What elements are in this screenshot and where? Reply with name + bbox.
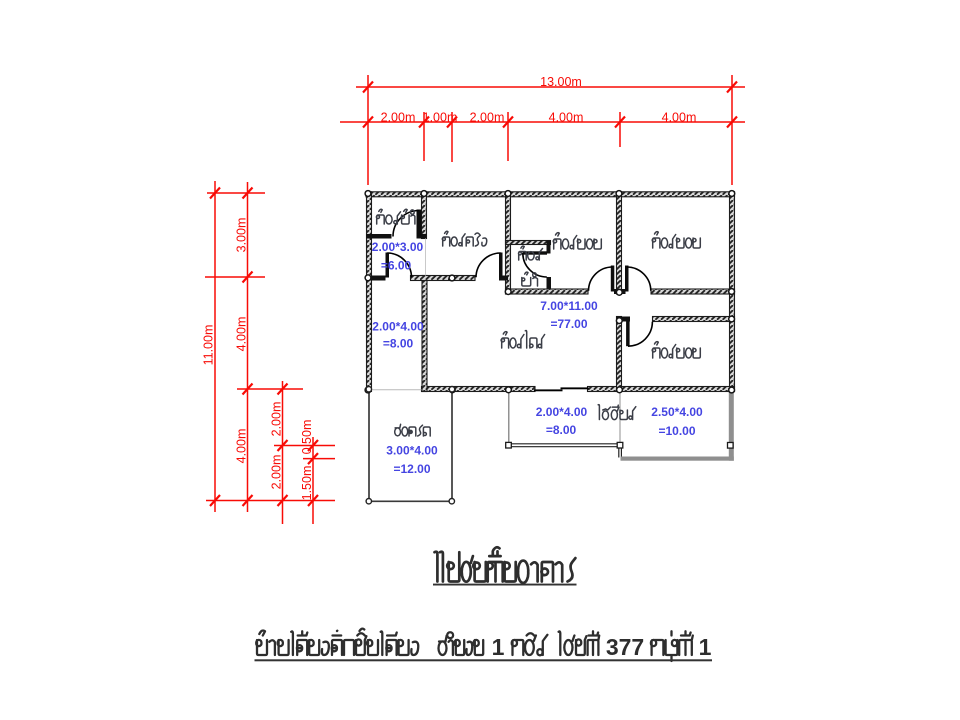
wall exterior right <box>730 192 735 392</box>
label small bathroom line2 (nam) <box>522 272 538 286</box>
svg-text:1: 1 <box>699 634 712 660</box>
right porch gray band bottom <box>621 457 734 461</box>
wall bedrooms south y=291 west segment <box>506 289 589 294</box>
wall y=277 segment middle (kitchen south) <box>411 276 476 281</box>
svg-text:=6.00: =6.00 <box>381 259 412 273</box>
label kitchen (hong krua) <box>442 231 486 246</box>
dimension line 11.00m (left overall height) <box>202 181 221 512</box>
porch slab edge double line y=445 <box>509 444 621 447</box>
parking corner circles <box>366 387 455 504</box>
column markers <box>365 191 735 393</box>
svg-text:2.00m: 2.00m <box>381 110 416 124</box>
svg-text:4.00m: 4.00m <box>662 110 697 124</box>
svg-text:=8.00: =8.00 <box>383 337 414 351</box>
porch divider thin line x=620 <box>619 392 621 444</box>
label bathroom top-left (hong nam) <box>376 209 415 224</box>
door D1 bathroom top-left <box>393 210 422 237</box>
wall interior x=424 upper (bath right) <box>422 192 427 239</box>
svg-text:=77.00: =77.00 <box>550 317 587 331</box>
svg-text:4.00m: 4.00m <box>235 317 249 352</box>
svg-text:1.50m: 1.50m <box>300 466 314 501</box>
dimension line row 2: 2.00m 1.00m 2.00m 4.00m 4.00m <box>340 110 745 162</box>
dimension line 13.00m (top overall width) <box>356 75 745 185</box>
wall y=277 jamb at kitchen door <box>499 276 508 281</box>
dimension line left: 2.00m 2.00m <box>270 381 288 524</box>
door D5 middle bedroom <box>589 266 615 292</box>
label hall (hong thong) <box>501 330 544 348</box>
area text porch right 2.50*4.00 <box>651 405 703 438</box>
dimension line left: 3.00m 4.00m 4.00m <box>235 182 253 512</box>
wall bathroom bottom y=236 jamb right <box>417 234 427 239</box>
svg-text:1.00m: 1.00m <box>423 110 458 124</box>
title underline <box>433 584 577 586</box>
svg-text:3.00m: 3.00m <box>235 218 249 253</box>
svg-text:2.00*4.00: 2.00*4.00 <box>536 405 588 419</box>
svg-text:=10.00: =10.00 <box>658 424 695 438</box>
bottom underline <box>255 659 713 661</box>
label bedroom right (hong non) <box>652 232 700 248</box>
wall y=277 segment west <box>366 276 386 281</box>
door D4 small bathroom <box>523 251 548 277</box>
area text bathroom 2.00*3.00 <box>372 240 424 273</box>
wall bedrooms south y=291 east segment <box>651 289 735 294</box>
svg-text:377: 377 <box>606 634 644 660</box>
bathroom partition thin line x=425 <box>425 239 427 276</box>
label bedroom bottom-right (hong non) <box>652 342 700 358</box>
wall interior divider between top bedrooms x=619 <box>617 192 622 294</box>
svg-text:13.00m: 13.00m <box>540 75 582 89</box>
wall bathroom bottom y=236 left segment <box>366 234 392 239</box>
wall exterior bottom (right of entrance) <box>588 387 735 392</box>
svg-text:4.00m: 4.00m <box>235 429 249 464</box>
dimension line left: 0.50m 1.50m <box>300 420 318 524</box>
svg-text:2.50*4.00: 2.50*4.00 <box>651 405 703 419</box>
parking slab outline <box>368 389 452 501</box>
wall exterior bottom (left of entrance) <box>422 387 536 392</box>
svg-text:4.00m: 4.00m <box>549 110 584 124</box>
svg-text:=8.00: =8.00 <box>546 423 577 437</box>
svg-text:1: 1 <box>492 634 505 660</box>
svg-text:=12.00: =12.00 <box>393 462 430 476</box>
wall interior x=424 lower (hall left) <box>422 276 427 392</box>
area text porch middle 2.00*4.00 <box>536 405 588 437</box>
wall exterior top <box>366 192 735 197</box>
label small bathroom line1 (hong) <box>519 246 543 260</box>
door D6 right top bedroom <box>625 266 651 292</box>
area text parking 3.00*4.00 <box>386 444 438 477</box>
porch divider thin line x=508.8 <box>508 392 510 444</box>
door D2 left room at y=277 <box>386 253 412 278</box>
wall interior x=508 (kitchen right) <box>506 192 511 294</box>
bottom text: detached one-storey house ... <box>256 629 418 655</box>
wall bedroom3 north y=317 east segment <box>653 317 735 322</box>
door D7 bottom-right bedroom <box>626 322 652 347</box>
svg-text:3.00*4.00: 3.00*4.00 <box>386 444 438 458</box>
porch node squares <box>506 442 733 448</box>
svg-text:2.00*4.00: 2.00*4.00 <box>372 320 424 334</box>
svg-text:7.00*11.00: 7.00*11.00 <box>540 299 598 313</box>
wall small bathroom right lower x=548 <box>547 277 552 292</box>
area text left room 2.00*4.00 <box>372 320 424 351</box>
wall bedrooms south y=291 middle jamb <box>614 289 626 294</box>
door D3 kitchen <box>476 253 503 278</box>
svg-text:2.00m: 2.00m <box>270 402 284 437</box>
label parking (jod rod) <box>395 424 431 436</box>
wall small bathroom right jamb <box>547 241 551 254</box>
area text hall 7.00*11.00 <box>540 299 598 331</box>
sliding entrance door <box>534 387 589 391</box>
title: plan peun akan (floor plan) <box>435 547 576 583</box>
svg-text:0.50m: 0.50m <box>300 420 314 455</box>
porch step double line x=620 down <box>619 447 622 458</box>
wall exterior left <box>367 192 372 392</box>
wall bedroom3 north y=317 west corner <box>617 317 631 322</box>
label bedroom middle (hong non) <box>553 233 601 249</box>
svg-text:2.00m: 2.00m <box>270 455 284 490</box>
wall interior x=619 lower (bedroom3 left) <box>617 317 622 392</box>
svg-text:2.00*3.00: 2.00*3.00 <box>372 240 424 254</box>
svg-text:2.00m: 2.00m <box>470 110 505 124</box>
right porch gray band right <box>729 392 734 461</box>
svg-text:11.00m: 11.00m <box>202 325 216 366</box>
red extension lines (left side) <box>205 193 335 501</box>
label porch (chaliang) <box>598 405 636 420</box>
wall small bathroom top y=242 <box>506 241 551 245</box>
